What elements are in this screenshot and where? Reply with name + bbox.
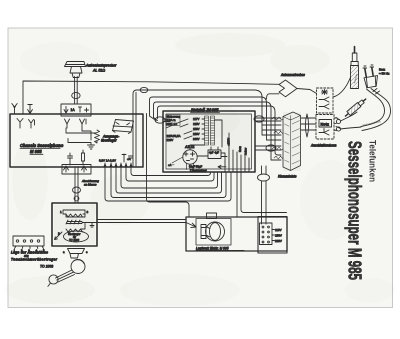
pickup head bbox=[68, 249, 85, 259]
secondary wire to motor line bbox=[81, 224, 85, 230]
Netz box bbox=[319, 120, 332, 128]
svg-text:Telefunken: Telefunken bbox=[367, 140, 378, 182]
tonearm bbox=[56, 270, 75, 282]
primary zigzag bbox=[66, 214, 83, 217]
wire box A to antenna banana bbox=[333, 76, 351, 97]
antenna symbol left bbox=[12, 104, 17, 115]
core lines bbox=[66, 220, 82, 224]
svg-text:Lage der Anschlüsse: Lage der Anschlüsse bbox=[11, 251, 48, 255]
oval label bbox=[64, 231, 89, 242]
harness loop L3 bbox=[154, 102, 272, 143]
svg-text:übertrager: übertrager bbox=[101, 139, 118, 143]
wire chassis down to uebertrager bbox=[74, 167, 76, 203]
wires netzteil bottom to laufwerk bbox=[236, 172, 238, 217]
svg-text:Chassis Sesselphono: Chassis Sesselphono bbox=[20, 143, 64, 148]
svg-text:Sesselphonosuper M 985: Sesselphonosuper M 985 bbox=[345, 141, 365, 280]
uebertrager box bbox=[52, 203, 97, 246]
svg-text:≈ 50 Hz: ≈ 50 Hz bbox=[379, 72, 390, 76]
capacitor + resistor inside chassis bottom bbox=[68, 153, 73, 165]
wires netzteil right to klemmleiste bbox=[255, 118, 281, 150]
grommet netzteil right bbox=[254, 116, 264, 122]
chassis box bbox=[10, 114, 143, 167]
loudspeaker body bbox=[70, 67, 82, 78]
wire pair chassis to netzteil bbox=[163, 119, 170, 122]
Klemmleiste 3D strip bbox=[283, 112, 301, 171]
plug sockets inside chassis bbox=[65, 119, 70, 128]
svg-text:4µF: 4µF bbox=[209, 151, 214, 155]
crimp ring wires bbox=[336, 119, 340, 123]
svg-text:220V: 220V bbox=[275, 239, 282, 243]
double wire to voltage connector bbox=[261, 181, 263, 224]
mains plug body bbox=[364, 76, 378, 88]
svg-text:Anker: Anker bbox=[244, 148, 248, 155]
cable grommet oval bbox=[72, 92, 80, 98]
inner verticals to bottom edge bbox=[229, 133, 249, 172]
power transformer windings bbox=[205, 116, 215, 145]
output coil zigzag bbox=[68, 130, 100, 143]
TA connector strip bbox=[13, 236, 44, 246]
earth arrow left bbox=[28, 105, 33, 115]
motor bbox=[196, 219, 231, 246]
secondary zigzag bbox=[66, 229, 83, 232]
grommet bbox=[73, 187, 81, 193]
svg-text:240V: 240V bbox=[193, 137, 200, 141]
cable lens bbox=[305, 114, 308, 137]
klemmleiste zigzag arms bbox=[272, 117, 283, 159]
svg-text:an Masse: an Masse bbox=[84, 183, 97, 187]
svg-text:110V: 110V bbox=[275, 228, 282, 232]
ground symbol bbox=[68, 143, 95, 150]
svg-text:Antennenbuchse: Antennenbuchse bbox=[280, 73, 305, 77]
antenna banana plug bbox=[354, 47, 356, 54]
loudspeaker AL (horn) bbox=[65, 62, 86, 67]
harness wires chassis to netzteil bottom bbox=[131, 163, 211, 176]
grommet mid right bbox=[266, 145, 276, 151]
grommet bottom bbox=[258, 174, 270, 181]
dashed box A bbox=[317, 88, 334, 113]
svg-text:Klemmleiste: Klemmleiste bbox=[278, 175, 297, 179]
diagonal earth plug bbox=[344, 97, 368, 118]
title Sesselphonosuper M 985 bbox=[345, 140, 378, 280]
svg-text:f.Tonabnehmer: f.Tonabnehmer bbox=[190, 169, 207, 172]
mains cable band bbox=[362, 89, 391, 131]
antenna switch diamond bbox=[279, 80, 297, 97]
wire diamond to box A bbox=[297, 89, 317, 94]
grommet netzteil left bbox=[155, 117, 165, 123]
svg-text:150V: 150V bbox=[275, 234, 282, 238]
svg-text:AL 51Ω: AL 51Ω bbox=[92, 69, 105, 73]
svg-text:4µF: 4µF bbox=[215, 151, 220, 155]
wires inside netzteil bbox=[201, 155, 208, 157]
grommet oval on L1 bbox=[140, 87, 148, 92]
primary loop bbox=[63, 210, 85, 214]
wire speaker feed from chassis to antenna switch bbox=[23, 81, 279, 114]
LS connector box on chassis top bbox=[61, 104, 91, 116]
pin arrowheads bbox=[104, 164, 132, 167]
wires to laufwerk motor bbox=[82, 220, 186, 223]
wires klemm to anschluss bbox=[301, 118, 316, 130]
svg-text:+A: +A bbox=[127, 157, 131, 161]
tonearm pivot bbox=[71, 260, 85, 274]
filter capacitor block bbox=[208, 150, 221, 159]
junction circle bbox=[74, 196, 79, 201]
motor feed arrow bbox=[186, 223, 196, 228]
svg-text:150V: 150V bbox=[193, 127, 200, 131]
wires right verticals into klemm bbox=[262, 116, 281, 135]
svg-text:AZ 11: AZ 11 bbox=[184, 145, 195, 149]
svg-text:220V: 220V bbox=[193, 132, 200, 136]
svg-text:6,3V 1A 6,3V: 6,3V 1A 6,3V bbox=[99, 159, 116, 163]
svg-text:50µF 50µF: 50µF 50µF bbox=[189, 165, 202, 169]
svg-text:125V: 125V bbox=[193, 122, 200, 126]
svg-text:Netz: Netz bbox=[321, 121, 329, 126]
svg-text:TO 1000: TO 1000 bbox=[69, 238, 80, 242]
rectifier tube AZ11 bbox=[183, 150, 197, 164]
svg-text:Laufwerk Elektr. M 985: Laufwerk Elektr. M 985 bbox=[196, 247, 229, 251]
svg-text:110V: 110V bbox=[167, 138, 174, 142]
laufwerk box bbox=[186, 217, 287, 251]
svg-text:117V: 117V bbox=[193, 117, 199, 121]
speaker cable (double line) bbox=[74, 77, 76, 105]
svg-text:M 985: M 985 bbox=[30, 149, 42, 154]
tap selector lines bbox=[180, 119, 192, 139]
harness loop L1 outer bbox=[133, 90, 262, 166]
wires LS box to output transformer bbox=[66, 128, 96, 133]
svg-text:Anschlußbuchsen: Anschlußbuchsen bbox=[310, 144, 337, 148]
svg-text:+250V: +250V bbox=[227, 138, 231, 146]
wire chassis side to laufwerk bbox=[147, 114, 190, 218]
output transformer 3D body bbox=[113, 120, 134, 133]
tap to ground bbox=[88, 223, 94, 228]
svg-text:TO 1003: TO 1003 bbox=[40, 265, 53, 269]
svg-text:Netzteil JN 985: Netzteil JN 985 bbox=[191, 108, 219, 113]
antenna sockets inside chassis bbox=[17, 119, 23, 129]
svg-text:Tonabnehmerübertrager: Tonabnehmerübertrager bbox=[11, 258, 58, 262]
mains plug prongs bbox=[365, 69, 367, 78]
voltage connector bbox=[258, 217, 287, 254]
netzteil box bbox=[163, 111, 255, 172]
harness loop L2 bbox=[150, 97, 267, 116]
svg-text:1A: 1A bbox=[71, 108, 76, 112]
harness loop L4 bbox=[158, 106, 282, 155]
svg-text:+A: +A bbox=[168, 163, 172, 167]
svg-text:Netz: Netz bbox=[238, 146, 242, 152]
dashed box B bbox=[316, 115, 334, 140]
svg-text:Außenlautsprecher: Außenlautsprecher bbox=[85, 64, 117, 68]
